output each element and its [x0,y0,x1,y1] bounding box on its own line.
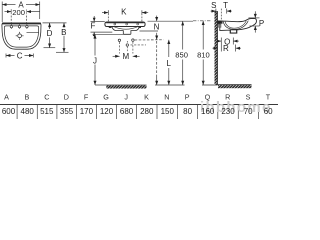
svg-text:160: 160 [201,107,215,116]
svg-text:850: 850 [175,50,188,59]
svg-text:S: S [211,1,216,10]
svg-text:G: G [103,93,109,102]
svg-text:Q: Q [205,93,211,102]
svg-text:T: T [223,1,228,10]
svg-text:120: 120 [100,107,114,116]
svg-text:170: 170 [80,107,94,116]
svg-text:K: K [121,7,127,16]
svg-text:D: D [47,29,53,38]
svg-text:A: A [4,93,9,102]
svg-text:N: N [164,93,169,102]
svg-text:M: M [122,52,129,61]
svg-text:J: J [93,56,97,65]
svg-text:70: 70 [244,107,253,116]
svg-text:R: R [223,44,229,53]
svg-text:J: J [124,93,128,102]
svg-text:D: D [64,93,69,102]
svg-text:515: 515 [40,107,54,116]
svg-text:80: 80 [183,107,192,116]
svg-text:810: 810 [197,50,210,59]
svg-text:280: 280 [140,107,154,116]
svg-text:F: F [90,22,95,31]
svg-text:T: T [266,93,271,102]
svg-text:60: 60 [264,107,273,116]
svg-text:K: K [144,93,149,102]
svg-text:480: 480 [21,107,35,116]
svg-text:R: R [225,93,230,102]
svg-text:680: 680 [120,107,134,116]
svg-text:S: S [246,93,251,102]
svg-text:C: C [17,52,23,61]
svg-text:200: 200 [12,8,25,17]
svg-text:B: B [61,28,66,37]
svg-text:150: 150 [161,107,175,116]
svg-text:600: 600 [2,107,16,116]
svg-text:B: B [25,93,30,102]
svg-text:P: P [185,93,190,102]
svg-text:230: 230 [221,107,235,116]
svg-text:P: P [259,19,264,28]
svg-text:C: C [44,93,49,102]
svg-text:F: F [84,93,89,102]
svg-text:L: L [166,59,171,68]
svg-text:N: N [154,23,160,32]
svg-text:355: 355 [60,107,74,116]
